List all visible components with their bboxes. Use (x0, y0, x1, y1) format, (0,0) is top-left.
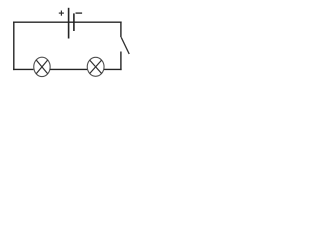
lamp L2 cross stroke 1 (90, 60, 102, 73)
lamp L2 bulb outline (87, 57, 104, 76)
battery plus polarity label vertical stroke (60, 11, 62, 16)
wire bottom segment 3 (lamp L2 to right corner) (104, 68, 122, 70)
wire right side upper (switch top contact) (120, 22, 122, 38)
battery plus polarity label horizontal stroke (59, 12, 64, 14)
battery B1 long positive plate (68, 8, 70, 39)
lamp L1 cross stroke 2 (36, 60, 48, 74)
lamp L1 bulb outline (34, 57, 50, 76)
wire bottom segment 2 (lamp L1 to lamp L2) (50, 68, 87, 70)
lamp L1 cross stroke 1 (36, 60, 48, 74)
wire top (battery leads, runs under plates) (13, 21, 122, 23)
battery B1 short negative plate (73, 13, 75, 31)
switch S1 open blade (121, 37, 129, 54)
wire left side (13, 22, 15, 71)
lamp L2 cross stroke 2 (90, 60, 102, 73)
battery minus polarity label (76, 12, 83, 14)
wire bottom segment 1 (left corner to lamp L1) (13, 68, 33, 70)
wire right side lower (switch bottom contact) (120, 52, 122, 71)
